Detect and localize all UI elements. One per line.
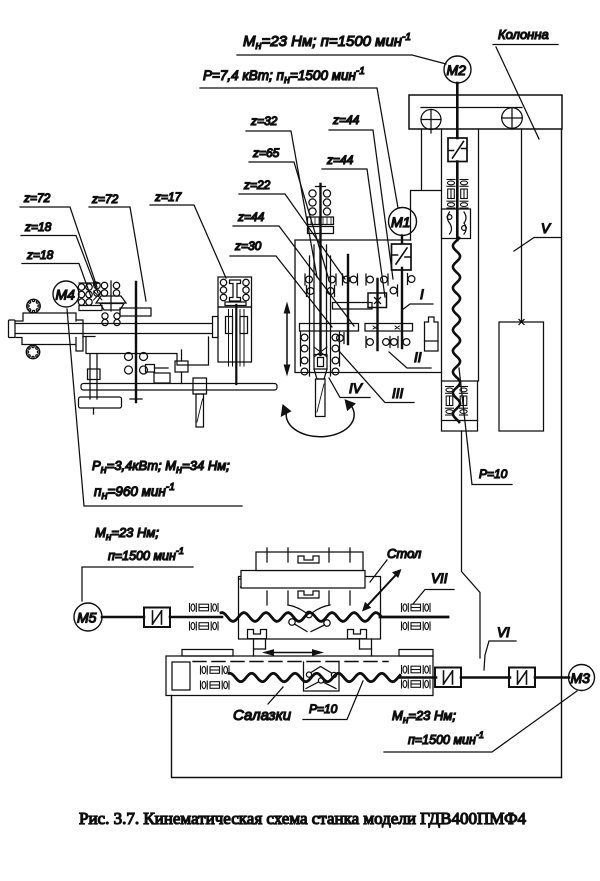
- shaft VI to coupling: [400, 676, 436, 679]
- head gear row upper: [305, 274, 398, 297]
- slide dashed centerline: [193, 661, 388, 663]
- slide left bearing upper: [201, 666, 230, 674]
- vertical shaft to bevel: [135, 282, 137, 402]
- shaft M5: [102, 616, 144, 619]
- label shaft IV: [329, 378, 370, 398]
- motor M4: [53, 281, 79, 307]
- gear bar row y=324 right: [365, 324, 413, 332]
- label z=44 second right: [322, 153, 385, 297]
- svg-text:III: III: [392, 386, 404, 401]
- screw channel left wall: [441, 129, 443, 381]
- pulley right: [502, 108, 523, 129]
- label shaft VII: [413, 571, 454, 604]
- screw top bearing right: [460, 180, 468, 209]
- bearing VI right upper: [402, 666, 431, 674]
- label z=17: [150, 190, 226, 278]
- motor M1: [389, 208, 417, 236]
- shaft below coupling: [456, 162, 459, 241]
- svg-text:M1: M1: [391, 214, 410, 230]
- table top tier: [256, 548, 363, 571]
- screw VI wavy: [229, 673, 400, 681]
- label shaft III: [339, 351, 414, 403]
- coupling M5: [144, 608, 170, 628]
- label z=32: [246, 114, 317, 277]
- svg-text:z=22: z=22: [243, 178, 271, 192]
- svg-text:M4: M4: [56, 287, 76, 303]
- svg-text:п=1500 мин-1: п=1500 мин-1: [108, 546, 184, 563]
- shaft M2 to screw: [456, 83, 459, 138]
- svg-text:Mн=23 Нм; п=1500 мин-1: Mн=23 Нм; п=1500 мин-1: [243, 32, 411, 52]
- svg-text:z=32: z=32: [250, 114, 278, 128]
- svg-text:z=72: z=72: [23, 191, 51, 205]
- hydraulic bracket shaft II: [425, 317, 439, 351]
- screw VII wavy: [221, 613, 381, 622]
- head vertical travel arrow: [284, 302, 291, 377]
- slide guideway strips: [182, 650, 233, 657]
- motor M3: [569, 665, 595, 691]
- shaft III: [376, 279, 378, 350]
- label M1 specs: P=7,4 кВт; пн=1500 мин: [200, 66, 398, 208]
- bearing hub plate: [83, 336, 95, 338]
- vertical shaft below z=17: [235, 305, 237, 384]
- shaft between couplings: [461, 676, 510, 679]
- svg-text:M2: M2: [447, 62, 467, 78]
- left rolling bearing lower: [26, 345, 40, 359]
- machine base: [172, 696, 562, 778]
- main horizontal shaft: [16, 324, 213, 334]
- svg-text:Салазки: Салазки: [233, 707, 292, 724]
- shaft I from M1: [401, 236, 403, 244]
- svg-text:z=17: z=17: [154, 190, 183, 204]
- svg-text:п=1500 мин-1: п=1500 мин-1: [408, 730, 484, 747]
- bearing VII right lower: [402, 622, 431, 630]
- bevel gear circles: [125, 353, 171, 384]
- svg-text:II: II: [414, 350, 422, 365]
- coupling VI right: [509, 668, 535, 688]
- under-shaft bracket: [86, 337, 209, 365]
- label shaft I: [402, 287, 433, 310]
- screw channel right wall: [478, 129, 480, 381]
- svg-text:z=18: z=18: [26, 248, 54, 262]
- small shifter x=181: [175, 350, 188, 384]
- ballscrew top nut block: [442, 209, 471, 239]
- slide left bearing lower: [201, 681, 230, 689]
- label M5 specs: Mн=23 Нм п=1500 мин: [82, 525, 193, 601]
- svg-text:I: I: [420, 287, 424, 302]
- label z=44 third: [233, 210, 354, 326]
- spindle chuck cross: [314, 347, 327, 357]
- bearing VII left upper: [190, 604, 219, 612]
- svg-text:P=10: P=10: [309, 702, 338, 716]
- svg-text:z=44: z=44: [332, 113, 360, 127]
- svg-text:Стол: Стол: [387, 546, 422, 561]
- clutch box with x on shaft III: [368, 293, 387, 308]
- upper rail: [16, 313, 83, 337]
- bearing circles under clutch: [102, 313, 120, 326]
- gear cluster z=18/z=18: [78, 282, 119, 310]
- safety coupling shaft I: [392, 244, 412, 270]
- shaft VII right: [380, 616, 448, 619]
- label M3 specs: Mн=23 Нм п=1500 мин: [384, 691, 577, 752]
- pulley left: [421, 110, 441, 134]
- slide travel arrow: [262, 649, 324, 656]
- svg-text:Рис. 3.7. Кинематическая схема: Рис. 3.7. Кинематическая схема станка мо…: [79, 809, 527, 828]
- spindle sleeve gear stack left: [301, 332, 340, 375]
- screw top bearing left: [447, 180, 455, 209]
- svg-text:VII: VII: [431, 571, 448, 586]
- shaft left end cap: [9, 320, 16, 338]
- svg-text:IV: IV: [349, 381, 364, 396]
- label Колонна: [493, 27, 558, 139]
- svg-text:z=44: z=44: [326, 153, 354, 167]
- column top bar: [409, 95, 562, 129]
- safety coupling on screw top: [448, 138, 467, 162]
- bearing VII left lower: [190, 622, 219, 630]
- spindle top gear stack: [308, 187, 334, 234]
- label Pн=3,4кВт Mн=34 Нм пн=960 мин (M4 specs): [67, 309, 242, 506]
- svg-text:z=18: z=18: [24, 220, 52, 234]
- belt line: [421, 107, 522, 109]
- shaft I: [401, 268, 403, 348]
- svg-text:z=44: z=44: [237, 210, 265, 224]
- left rolling bearing upper: [27, 299, 41, 313]
- counterweight: [499, 322, 544, 431]
- svg-text:z=72: z=72: [91, 192, 119, 206]
- column right wall: [561, 129, 563, 778]
- table body: [239, 577, 381, 640]
- label z=18 second: [22, 248, 91, 297]
- svg-text:M3: M3: [571, 670, 591, 686]
- gear bar shaft II upper: [333, 303, 373, 310]
- spindle shaft IV: [319, 184, 321, 355]
- head housing: [295, 240, 442, 373]
- lower vertical mech: [79, 354, 122, 414]
- svg-text:M5: M5: [77, 610, 97, 626]
- table ballscrew nut: [288, 605, 330, 632]
- slide ballscrew nut: [304, 662, 340, 691]
- long rail: [81, 384, 277, 391]
- gearbox z=17 block: [218, 277, 252, 307]
- gear on shaft I top: [408, 274, 415, 285]
- shaft to M3: [535, 676, 569, 679]
- label z=65: [249, 146, 329, 280]
- table feed arrow: [365, 572, 399, 609]
- table tier 2: [241, 571, 365, 589]
- svg-text:P=10: P=10: [479, 467, 508, 481]
- column left wall: [411, 129, 442, 240]
- screw bottom bearing block: [442, 381, 478, 431]
- shaft II: [347, 255, 349, 344]
- svg-text:Колонна: Колонна: [498, 27, 549, 42]
- quill: [310, 245, 331, 417]
- label Стол: [370, 546, 422, 582]
- bearing VI right lower: [402, 680, 431, 688]
- spindle rotation arc: [281, 399, 356, 437]
- label z=44 top right: [329, 113, 393, 279]
- label P=10 column: [459, 368, 512, 485]
- label shaft II: [389, 350, 431, 368]
- counterweight suspension line: [519, 129, 524, 325]
- label z=18 first: [21, 220, 98, 293]
- svg-text:z=30: z=30: [234, 239, 262, 253]
- svg-text:VI: VI: [497, 625, 510, 640]
- motor M2: [444, 56, 471, 83]
- tool post x=200: [193, 378, 207, 427]
- lower rail: [16, 338, 83, 352]
- cone clutch: [96, 281, 126, 311]
- engage arrow: [79, 281, 101, 286]
- label z=72 second: [89, 192, 146, 301]
- label z=22: [239, 178, 345, 279]
- saddle under table: [254, 639, 372, 656]
- column front profile below nut: [462, 431, 481, 658]
- label shaft V: [514, 221, 561, 251]
- label Салазки: [233, 687, 292, 724]
- label M2 specs: Mн=23 Нм; п=1500 мин: [237, 32, 446, 64]
- motor M5: [74, 603, 102, 631]
- bearing VII right upper: [402, 604, 431, 612]
- ballscrew V (wavy): [453, 238, 460, 422]
- shaft to screw VII: [170, 616, 222, 619]
- gear bar z=72: [120, 308, 151, 316]
- label P=10 slide: [303, 681, 363, 720]
- coupling VI left: [435, 668, 461, 688]
- label shaft VI: [484, 625, 516, 670]
- gear bar row y=324 left: [300, 324, 400, 332]
- slide body: [166, 656, 433, 696]
- head gear row lower: [337, 333, 410, 348]
- clutch housing below z=17: [213, 307, 252, 366]
- label z=30: [230, 239, 332, 327]
- label z=72 left: [20, 191, 97, 287]
- svg-text:z=65: z=65: [252, 146, 280, 160]
